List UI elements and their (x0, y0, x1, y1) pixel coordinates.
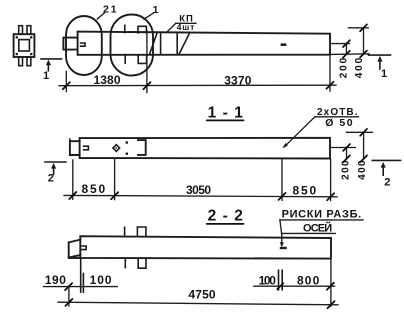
break mark diagonal 2 (179, 33, 190, 55)
detail ellipse 1 (111, 15, 154, 76)
cross-section top tab 2 (27, 26, 31, 35)
rebar tick below beam (in ellipse 1) (124, 55, 126, 64)
cross-section corner dot TR (30, 36, 32, 38)
tenon latch hook (plan) (81, 43, 85, 46)
beam tenon (left end) (70, 141, 80, 155)
svg-text:400: 400 (357, 160, 368, 180)
lug bracket (side view) (138, 140, 146, 155)
label KP leader (167, 24, 176, 33)
extension bar at 282.2 (281, 270, 283, 290)
anchor dot bottom (126, 153, 128, 155)
svg-text:100: 100 (259, 274, 277, 288)
cross-section corner dot TL (16, 36, 18, 38)
top lug (plan) (138, 26, 146, 33)
svg-text:200: 200 (338, 57, 349, 78)
diamond centre dot (116, 147, 118, 149)
label KP underline (176, 22, 196, 24)
tick at 147 (143, 82, 150, 89)
svg-text:850: 850 (82, 182, 106, 196)
ticks of 400 (360, 24, 367, 31)
label 2 holes underline (315, 116, 359, 118)
hole leader line (285, 117, 315, 147)
beam tenon (2-2) outer edge (68, 242, 70, 257)
dim line left group (190/100) (44, 286, 118, 288)
extension line 850 right a (281, 160, 283, 201)
tick 4750 right (328, 301, 335, 308)
svg-text:2: 2 (48, 173, 54, 185)
svg-text:1-1: 1-1 (208, 104, 244, 121)
svg-text:800: 800 (297, 274, 320, 288)
risk dash on beam (2-2) (280, 247, 287, 249)
top extension line for 400 (348, 27, 368, 29)
dim line 400 (vertical) (363, 28, 365, 54)
section cut marker 2 left: shaft (53, 168, 55, 175)
svg-text:200: 200 (341, 160, 352, 180)
svg-text:400: 400 (354, 57, 365, 78)
cross-section symbol outer square (14, 34, 35, 57)
dim line right group (100/800) (254, 285, 335, 287)
svg-text:190: 190 (45, 273, 66, 287)
extension bar at 80.7 (80, 259, 82, 292)
svg-text:4750: 4750 (188, 287, 216, 301)
dim line 200 (vertical) (345, 44, 347, 55)
svg-text:1380: 1380 (94, 73, 121, 87)
svg-text:РИСКИ РАЗБ.: РИСКИ РАЗБ. (282, 209, 362, 221)
section cut marker 1 left: trace line (41, 58, 62, 60)
section cut marker 1 left: shaft (47, 64, 49, 71)
section cut marker 1 right: arrowhead (377, 56, 382, 62)
tick at 330 (327, 82, 334, 89)
leader connector (280, 220, 282, 234)
section cut marker 2 left: trace line (45, 161, 66, 163)
extension line 850 left b (114, 159, 116, 200)
extension line mid (x=147) (146, 31, 148, 93)
svg-text:3370: 3370 (224, 73, 252, 87)
cross-section corner dot BL (16, 53, 18, 55)
tick at 66 (63, 82, 70, 89)
tenon latch hook (84, 146, 89, 150)
cross-section corner dot BR (30, 53, 32, 55)
svg-text:4шт: 4шт (177, 22, 195, 32)
extension line left (x=66) (65, 72, 67, 92)
section title underline (207, 223, 244, 225)
cross-section symbol inner square (19, 40, 30, 51)
cross-section top tab 1 (19, 26, 23, 35)
beam outline (plan) (78, 32, 330, 55)
break mark diagonal 1 (149, 33, 157, 55)
centre extension line (1-1 right) (330, 147, 355, 149)
dim line 200 (1-1) (346, 148, 348, 159)
tick at 330.4 (327, 283, 334, 290)
extension bar at 83.4 (82, 274, 84, 293)
beam tenon (2-2) top slant (69, 240, 81, 243)
ticks of 200 (1-1) (343, 144, 350, 151)
svg-text:3050: 3050 (186, 183, 211, 197)
tenon latch hook (2-2) (82, 246, 86, 250)
label 1 leader (144, 13, 153, 19)
rebar tick above beam (2-2) (124, 227, 126, 236)
ticks of 200 (343, 40, 350, 47)
leader to risk mark (281, 233, 283, 243)
beam tenon (2-2) bottom (69, 255, 81, 258)
section cut marker 1 right: shaft (379, 61, 381, 70)
beam outline (section 2-2) (80, 236, 331, 258)
label 21 leader (97, 13, 104, 19)
section cut marker 1 right: trace line (369, 54, 391, 56)
svg-text:850: 850 (293, 184, 317, 198)
break box left edge (160, 33, 162, 55)
rebar tick below beam (2-2) (124, 258, 126, 267)
extension line 4750 left (68, 287, 70, 306)
strand anchor diamond (113, 145, 120, 152)
break box right edge (176, 33, 178, 55)
cross-section bottom tab 2 (27, 57, 31, 66)
dim line 400 (1-1) (363, 132, 365, 159)
svg-text:1: 1 (381, 68, 387, 80)
label osei underline (282, 232, 336, 234)
extension line 850 left a (72, 160, 74, 199)
bottom lug (plan) (138, 55, 146, 64)
detail ellipse 21 (66, 16, 102, 75)
anchor dot top (126, 141, 128, 143)
tick 4750 left (65, 299, 72, 306)
svg-text:2: 2 (384, 177, 390, 189)
label riski underline (280, 219, 363, 221)
hole leader arrowhead (282, 143, 288, 148)
small tick at 280 (277, 283, 283, 289)
centre extension line right end (330, 43, 350, 45)
section cut marker 1 left: arrowhead (46, 60, 51, 66)
dimension line 4750 (58, 302, 338, 305)
leader arrowhead down (280, 242, 284, 247)
beam tenon (left end, plan) (63, 38, 77, 50)
svg-text:1: 1 (43, 70, 49, 82)
dimension line 1380/3370 (59, 84, 336, 87)
svg-text:Ø 50: Ø 50 (325, 117, 352, 129)
section cut marker 2 right: shaft (382, 167, 384, 176)
beam outline (section 1-1) (80, 138, 330, 159)
rebar tick above beam (in ellipse 1) (124, 25, 126, 32)
top extension line for 400 (1-1) (346, 131, 372, 133)
tenon corner stub (69, 139, 71, 141)
dimension line 850/3050/850 (64, 195, 337, 196)
section cut marker 2 right: trace line (372, 159, 400, 161)
extension bar at 278.5 (278, 270, 280, 290)
extension line 850 right b (330, 159, 332, 201)
cross-section bottom tab 1 (19, 57, 23, 66)
svg-text:1: 1 (153, 4, 159, 16)
section title underline (207, 119, 244, 121)
bottom lug (2-2) (138, 258, 146, 268)
ticks of 400 (1-1) (360, 129, 367, 136)
extension line 4750 right (330, 259, 332, 306)
extension line right (x=330) (329, 56, 331, 91)
top lug (2-2) (137, 227, 146, 236)
section cut marker 2 left: arrowhead (51, 163, 56, 169)
section cut marker 2 right: arrowhead (381, 162, 386, 168)
bottom lip (2-2) (69, 257, 80, 259)
svg-text:2-2: 2-2 (208, 208, 243, 225)
tick at 68.6 (65, 283, 72, 290)
centre risk dash on beam (281, 43, 287, 46)
svg-text:ОСЕЙ: ОСЕЙ (303, 221, 332, 234)
svg-text:100: 100 (90, 273, 112, 287)
ticks 850/3050/850 (69, 192, 76, 199)
svg-text:21: 21 (103, 4, 117, 16)
bottom extension line right end (330, 53, 369, 56)
